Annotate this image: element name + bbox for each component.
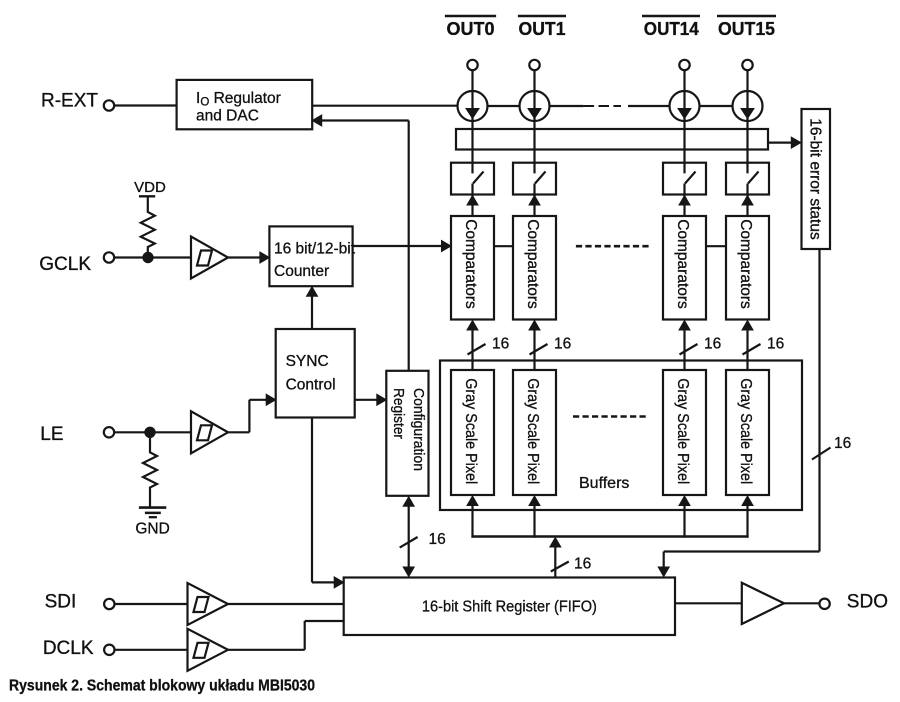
ground GND	[135, 508, 169, 538]
wire current source OUT14 to OUT15	[700, 105, 733, 107]
resistor R-pullup GCLK	[141, 196, 155, 252]
terminal OUT14	[679, 60, 689, 70]
comparator block OUT1	[513, 216, 556, 320]
svg-text:Register: Register	[390, 388, 407, 439]
wire GCLK to buffer	[114, 256, 191, 258]
bus 16 shift register to buffers	[550, 538, 591, 578]
svg-text:GND: GND	[135, 521, 169, 538]
svg-text:Buffers: Buffers	[579, 475, 629, 492]
svg-text:OUT1: OUT1	[519, 19, 566, 39]
svg-text:Gray Scale Pixel: Gray Scale Pixel	[524, 378, 541, 484]
wire sync control to shift register	[312, 418, 344, 588]
terminal OUT1	[529, 60, 539, 70]
terminal SDO	[819, 599, 829, 609]
terminal SDI	[104, 599, 114, 609]
wire comparator to switch arrow OUT14	[679, 196, 690, 206]
svg-text:SYNC: SYNC	[286, 353, 329, 370]
wire DCLK buffer to shift register	[228, 621, 344, 650]
current source OUT14	[670, 91, 700, 121]
wire R-EXT to regulator	[114, 104, 176, 106]
wire OUT1 terminal to switch	[533, 70, 535, 173]
svg-text:SDO: SDO	[847, 592, 888, 613]
wire shift bus to pixel OUT1	[529, 496, 540, 538]
svg-text:16: 16	[429, 531, 446, 548]
wire shift register to SDO buffer	[675, 602, 742, 604]
wire sync control to counter	[307, 287, 318, 329]
block U-cnt 16bit/12-bit Counter	[269, 226, 355, 286]
buffer schmitt SDI	[188, 583, 229, 625]
block U-err 16-bit error status	[802, 109, 831, 249]
gray scale pixel block OUT1	[513, 370, 556, 495]
current source OUT0	[458, 91, 488, 121]
svg-text:Gray Scale Pixel: Gray Scale Pixel	[674, 378, 691, 484]
node OUT14 label	[642, 16, 700, 39]
svg-text:OUT15: OUT15	[718, 19, 775, 39]
current source OUT15	[733, 91, 763, 121]
svg-text:DCLK: DCLK	[43, 638, 94, 659]
power VDD	[134, 179, 166, 196]
wire regulator to current source OUT0	[312, 105, 458, 107]
wire SDI to buffer	[115, 603, 188, 605]
block U-sr 16-bit Shift Register FIFO	[344, 578, 675, 636]
buffer schmitt LE	[191, 411, 228, 453]
wire current source OUT1 right	[550, 105, 584, 107]
wire current source OUT14 left	[628, 105, 670, 107]
terminal GCLK	[104, 252, 114, 262]
wire SDI buffer to shift register	[228, 603, 344, 605]
svg-text:R-EXT: R-EXT	[41, 91, 98, 112]
buffer schmitt DCLK	[188, 629, 229, 671]
svg-text:OUT14: OUT14	[644, 19, 699, 39]
bus 16 gray-scale to comparator OUT14	[679, 321, 721, 371]
svg-text:16 bit/12-bit: 16 bit/12-bit	[274, 241, 356, 258]
bus bar error detect	[456, 129, 768, 150]
wire LE to buffer	[114, 431, 191, 433]
bus 16 gray-scale to comparator OUT1	[529, 321, 571, 371]
wire comparator to switch arrow OUT0	[467, 196, 478, 206]
svg-text:Gray Scale Pixel: Gray Scale Pixel	[462, 378, 479, 484]
wire DCLK to buffer	[115, 649, 188, 651]
buffer SDO output	[742, 583, 784, 624]
block U-reg Io Regulator and DAC	[177, 80, 313, 129]
svg-text:Comparators: Comparators	[737, 219, 754, 309]
wire bus bar to error status	[768, 137, 801, 148]
svg-text:16-bit Shift Register (FIFO): 16-bit Shift Register (FIFO)	[422, 599, 597, 616]
wire OUT14 terminal to switch	[683, 70, 685, 173]
bus 16 gray-scale to comparator OUT15	[742, 321, 784, 371]
svg-text:Control: Control	[286, 377, 336, 394]
switch OUT0	[451, 163, 494, 216]
block Buffers group	[440, 361, 802, 511]
wire shift bus to pixel OUT14	[679, 496, 690, 538]
wire sync control to configuration register	[355, 394, 387, 405]
block U-cfg Configuration Register	[386, 371, 428, 496]
block U-sync SYNC Control	[276, 329, 355, 418]
wire dashed current source row	[584, 105, 621, 107]
wire LE buffer to sync control	[228, 394, 276, 432]
bus collect line	[471, 535, 748, 537]
wire configuration register to regulator	[312, 115, 409, 371]
node OUT15 label	[717, 16, 776, 39]
gray scale pixel block OUT14	[663, 370, 706, 495]
wire comparators 14-15 link	[706, 245, 726, 247]
svg-text:16: 16	[767, 336, 784, 353]
svg-text:VDD: VDD	[134, 179, 166, 196]
svg-text:16: 16	[704, 336, 721, 353]
resistor R-pulldown LE	[143, 432, 157, 506]
junction GCLK pull-up	[143, 252, 153, 262]
terminal OUT0	[467, 60, 477, 70]
svg-text:16: 16	[492, 336, 509, 353]
junction LE pull-down	[145, 427, 155, 437]
svg-text:and DAC: and DAC	[196, 107, 259, 124]
comparator block OUT14	[663, 216, 706, 320]
gray scale pixel block OUT15	[726, 370, 769, 495]
wire current source OUT0 to OUT1	[488, 105, 520, 107]
wire SDO buffer to terminal	[784, 602, 819, 604]
switch OUT1	[513, 163, 556, 216]
bus 16 error status to shift register	[658, 249, 851, 577]
node OUT0 label	[445, 16, 496, 39]
bus 16 gray-scale to comparator OUT0	[467, 321, 509, 371]
terminal R-EXT	[104, 100, 114, 110]
wire counter to comparators	[353, 241, 451, 252]
svg-text:16: 16	[574, 556, 591, 573]
wire dashed gray scale row	[573, 415, 646, 418]
wire shift bus to pixel OUT0	[467, 496, 478, 538]
svg-text:SDI: SDI	[45, 592, 77, 613]
wire GCLK buffer to counter	[228, 252, 269, 263]
wire OUT0 terminal to switch	[471, 70, 473, 173]
svg-text:16: 16	[554, 336, 571, 353]
svg-text:16: 16	[834, 435, 851, 452]
switch OUT14	[663, 163, 706, 216]
terminal DCLK	[104, 645, 114, 655]
current source OUT1	[520, 91, 550, 121]
terminal OUT15	[742, 60, 752, 70]
svg-text:LE: LE	[40, 424, 63, 445]
svg-text:Counter: Counter	[274, 263, 329, 280]
node OUT1 label	[518, 16, 566, 39]
gray scale pixel block OUT0	[451, 370, 494, 495]
svg-text:GCLK: GCLK	[39, 254, 91, 275]
svg-text:IO Regulator: IO Regulator	[196, 90, 281, 109]
svg-text:Comparators: Comparators	[674, 219, 691, 309]
svg-text:Rysunek 2. Schemat blokowy ukł: Rysunek 2. Schemat blokowy układu MBI503…	[9, 678, 315, 695]
wire dashed comparator row	[576, 245, 649, 248]
svg-text:OUT0: OUT0	[447, 19, 495, 39]
wire comparators 0-1 link	[494, 245, 513, 247]
svg-text:Configuration: Configuration	[410, 388, 427, 471]
bus 16 configuration register to shift register	[400, 497, 446, 577]
comparator block OUT0	[451, 216, 494, 320]
svg-text:Comparators: Comparators	[524, 219, 541, 309]
wire comparator to switch arrow OUT1	[529, 196, 540, 206]
wire OUT15 terminal to switch	[746, 70, 748, 173]
svg-text:16-bit error status: 16-bit error status	[807, 118, 824, 240]
wire comparator to switch arrow OUT15	[742, 196, 753, 206]
comparator block OUT15	[726, 216, 769, 320]
buffer schmitt GCLK	[191, 237, 228, 279]
svg-text:Gray Scale Pixel: Gray Scale Pixel	[737, 378, 754, 484]
wire shift bus to pixel OUT15	[742, 496, 753, 538]
terminal LE	[104, 427, 114, 437]
svg-text:Comparators: Comparators	[462, 219, 479, 309]
switch OUT15	[726, 163, 769, 216]
